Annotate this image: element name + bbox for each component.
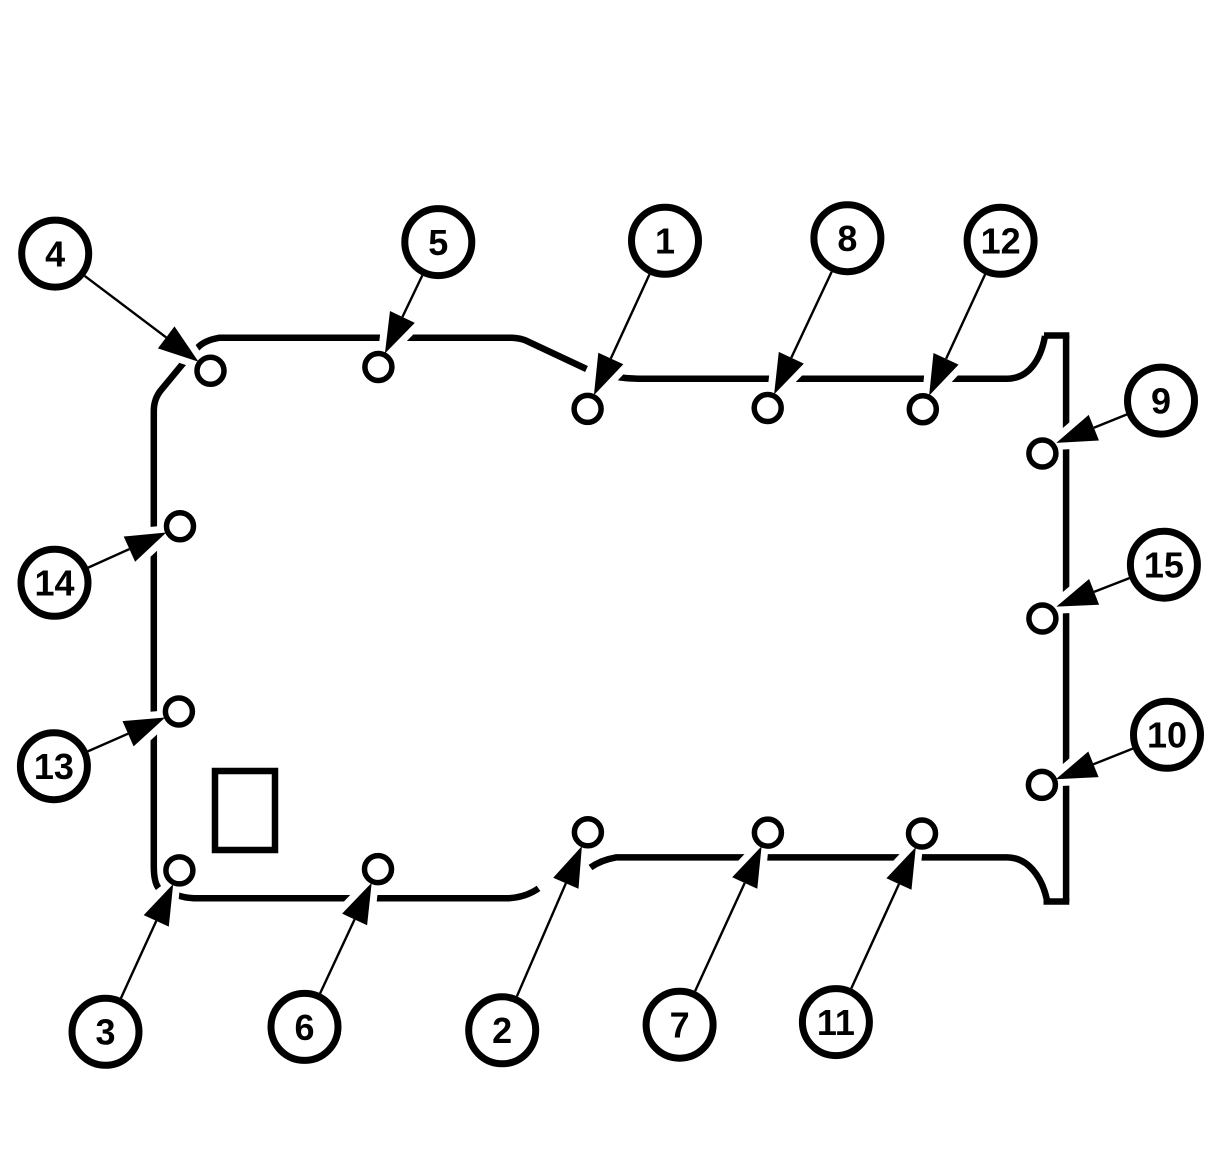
leader line for callout 15 [1094, 578, 1129, 592]
callout circle 9 [1128, 367, 1195, 434]
bolt hole 8 [754, 395, 781, 422]
callout circle 2 [469, 997, 536, 1064]
leader line for callout 12 [946, 274, 985, 358]
leader halo for callout 2 [517, 846, 582, 996]
arrowhead for callout 4 [158, 326, 199, 361]
leader halo for callout 14 [88, 533, 166, 568]
svg-text:3: 3 [95, 1012, 115, 1053]
svg-text:10: 10 [1147, 715, 1187, 756]
drain plug rectangle [215, 771, 275, 850]
oil pan rail: lower bottom rail from bolt hole 2 to bottom-right corner arc [591, 857, 1047, 899]
leader halo for callout 12 [929, 274, 985, 395]
arrowhead for callout 11 [886, 847, 915, 890]
leader halo for callout 5 [385, 276, 422, 354]
leader halo for callout 7 [695, 846, 762, 991]
bolt hole 5 [365, 354, 392, 381]
arrowhead for callout 12 [929, 353, 959, 396]
arrowhead for callout 3 [144, 884, 174, 927]
arrowhead for callout 9 [1056, 415, 1099, 443]
oil pan rail: bottom-right cap [1044, 898, 1070, 905]
leader halo for callout 10 [1056, 749, 1133, 780]
callout circle 13 [20, 733, 87, 800]
callout circle 14 [21, 549, 88, 616]
oil pan rail: top-right cap [1044, 332, 1069, 339]
leader line for callout 2 [517, 883, 566, 996]
leader line for callout 14 [88, 549, 129, 568]
leader line for callout 8 [791, 272, 831, 358]
callout circle 7 [646, 991, 713, 1058]
bolt hole 4 [197, 357, 224, 384]
callout circle 1 [632, 207, 699, 274]
svg-text:5: 5 [428, 222, 448, 263]
leader halo for callout 13 [88, 718, 165, 752]
callout circle 3 [72, 998, 139, 1065]
callout circle 12 [967, 207, 1034, 274]
leader halo for callout 4 [85, 276, 199, 362]
callout circle 10 [1134, 701, 1201, 768]
leader line for callout 10 [1093, 749, 1132, 765]
arrowhead for callout 14 [124, 533, 167, 562]
bolt hole 6 [365, 856, 392, 883]
bolt hole 2 [574, 819, 601, 846]
bolt hole 1 [574, 395, 601, 422]
leader line for callout 5 [402, 276, 422, 318]
callout circle 5 [405, 209, 472, 276]
arrowhead for callout 7 [732, 846, 761, 889]
svg-text:11: 11 [817, 1002, 855, 1043]
oil pan rail: bottom-left rail from bolt hole 3 to step up at bolt hole 2 [177, 888, 539, 898]
svg-text:15: 15 [1144, 545, 1184, 586]
leader halo for callout 9 [1056, 415, 1126, 443]
callout circle 4 [22, 220, 89, 287]
bolt hole 12 [909, 396, 936, 423]
leader line for callout 13 [88, 734, 128, 752]
arrowhead for callout 10 [1056, 752, 1099, 780]
svg-text:2: 2 [492, 1010, 512, 1051]
bolt hole 11 [909, 820, 936, 847]
callout circle 11 [802, 989, 869, 1056]
leader line for callout 1 [611, 274, 650, 358]
leader line for callout 7 [695, 883, 745, 991]
oil pan rail: top-left curl and upper top rail with step down toward bolt hole 1 [197, 338, 587, 369]
arrowhead for callout 8 [774, 352, 804, 395]
leader line for callout 4 [85, 276, 167, 338]
leader line for callout 11 [851, 884, 899, 988]
leader halo for callout 15 [1056, 578, 1129, 607]
leader halo for callout 8 [774, 272, 832, 395]
leader halo for callout 11 [851, 847, 916, 988]
bolt hole 14 [167, 513, 194, 540]
bolt hole 9 [1029, 440, 1056, 467]
bolt hole 15 [1029, 605, 1056, 632]
oil pan rail: left side (vertical with chamfered top-left corner) [154, 361, 186, 889]
arrowhead for callout 5 [385, 311, 415, 354]
svg-text:9: 9 [1151, 381, 1171, 422]
arrowhead for callout 1 [594, 353, 623, 396]
arrowhead for callout 2 [553, 846, 582, 889]
svg-text:6: 6 [294, 1007, 314, 1048]
leader line for callout 9 [1094, 415, 1127, 428]
svg-text:7: 7 [670, 1005, 690, 1046]
oil pan rail: lower top rail from bolt hole 1 to top-right hook curve [618, 336, 1045, 379]
svg-text:12: 12 [981, 221, 1021, 262]
svg-text:13: 13 [34, 746, 74, 787]
bolt hole 3 [166, 857, 193, 884]
leader line for callout 3 [121, 921, 156, 998]
svg-text:8: 8 [837, 218, 857, 259]
callout circle 8 [814, 205, 881, 272]
svg-text:4: 4 [45, 234, 65, 275]
svg-text:1: 1 [655, 221, 675, 262]
leader halo for callout 1 [594, 274, 650, 395]
callout circle 6 [271, 993, 338, 1060]
callout circle 15 [1130, 531, 1197, 598]
bolt hole 13 [165, 698, 192, 725]
arrowhead for callout 13 [123, 718, 166, 747]
leader line for callout 6 [320, 919, 355, 993]
oil pan rail: right vertical edge [1063, 336, 1070, 902]
arrowhead for callout 6 [342, 883, 372, 926]
leader halo for callout 6 [320, 883, 372, 994]
leader halo for callout 3 [121, 884, 173, 998]
arrowhead for callout 15 [1056, 579, 1099, 607]
bolt hole 7 [754, 819, 781, 846]
bolt hole 10 [1028, 771, 1055, 798]
svg-text:14: 14 [34, 563, 74, 604]
